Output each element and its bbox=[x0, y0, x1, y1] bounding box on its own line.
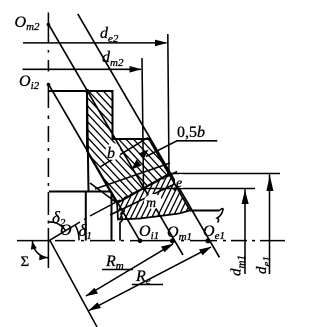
svg-text:b: b bbox=[107, 145, 115, 162]
junction dot Om2 bbox=[47, 23, 51, 27]
arrow de1 bbox=[266, 175, 273, 191]
svg-text:m: m bbox=[146, 196, 156, 211]
arrow Re right bbox=[199, 247, 212, 256]
gear 1 tip internal stub bbox=[90, 183, 117, 203]
svg-text:O: O bbox=[60, 222, 72, 239]
internal back cone line L2 (Oi2 to Oi1) bbox=[48, 84, 140, 241]
pitch cone line (dash-dot from apex O through E) bbox=[50, 172, 177, 241]
Sigma angle arc bbox=[32, 241, 48, 258]
dimension de1 vertical line bbox=[269, 175, 271, 275]
delta1 angle arc bbox=[76, 226, 80, 241]
gear 2 tooth tip line bbox=[100, 138, 148, 168]
arrow dm1 bbox=[242, 190, 249, 204]
junction dot Oi2 bbox=[47, 83, 51, 87]
junction dot Oi1 bbox=[138, 239, 143, 244]
junction dot E external point bbox=[167, 172, 171, 176]
arrow de2 bbox=[155, 40, 167, 47]
junction dot rim corner bbox=[85, 89, 89, 93]
O extension line (perpendicular to pitch line below apex) bbox=[50, 241, 97, 327]
halo for m bbox=[144, 194, 162, 209]
svg-text:Σ: Σ bbox=[21, 254, 30, 270]
Sigma arc arrow right bbox=[39, 254, 47, 260]
dm2 extension line bbox=[142, 58, 144, 188]
svg-text:0,5b: 0,5b bbox=[177, 124, 205, 141]
dimension dm1 vertical line bbox=[244, 190, 246, 275]
gear 1 root line bbox=[110, 180, 183, 215]
e section line bbox=[169, 173, 281, 175]
gear 1 left face bbox=[111, 192, 113, 241]
m section line bbox=[144, 188, 256, 190]
gear 2 hub lower edge vertical bbox=[85, 192, 87, 241]
dimension dm2 line bbox=[23, 68, 141, 70]
gear 1 rim and tooth section (hatched) bbox=[110, 173, 191, 220]
junction dot M on m-line bbox=[142, 187, 146, 191]
Sigma arc arrow top bbox=[31, 241, 37, 250]
external back cone line L1 (to Oe1) bbox=[78, 14, 220, 257]
gear 2 bottom face line bbox=[49, 191, 112, 193]
Re dimension line bbox=[89, 247, 211, 311]
Rm dimension line bbox=[86, 244, 173, 296]
gear 1 internal break curl bbox=[120, 211, 126, 223]
b dimension arrow upper bbox=[139, 150, 149, 160]
arrow Rm left bbox=[86, 288, 99, 297]
gear 1 hub break curl bbox=[217, 209, 223, 223]
halo for e bbox=[175, 174, 188, 188]
arrow Rm right bbox=[161, 244, 174, 253]
mean back cone line L0 (Om2 to Om1) bbox=[48, 24, 183, 255]
b dimension arrow lower bbox=[132, 160, 142, 170]
halo for b bbox=[106, 143, 121, 160]
gear 1 axis (horizontal dash-dot centerline through O) bbox=[17, 240, 285, 242]
gear 2 rim left edge extended bbox=[87, 91, 89, 192]
junction dot m-line meets L1 bbox=[173, 187, 177, 191]
gear 2 rim and tooth section (hatched) bbox=[86, 90, 170, 204]
arrow dm2 bbox=[130, 66, 142, 73]
junction dot Oe1 bbox=[205, 238, 210, 243]
arrow Re left bbox=[89, 302, 102, 311]
gear 1 hub top line bbox=[190, 210, 219, 212]
dimension de2 line bbox=[23, 42, 167, 44]
gear 1 tooth tip line bbox=[95, 163, 170, 189]
svg-text:e: e bbox=[176, 176, 182, 191]
delta2 angle arc bbox=[48, 222, 65, 231]
gear 1 inner web edge bbox=[119, 223, 121, 241]
gear 2 axis (vertical dash-dot centerline) bbox=[47, 13, 49, 269]
0,5b leader line bbox=[146, 141, 217, 157]
de2 extension line bbox=[168, 34, 169, 174]
gear 2 top face line bbox=[49, 90, 113, 92]
junction dot Om1 bbox=[170, 238, 175, 243]
